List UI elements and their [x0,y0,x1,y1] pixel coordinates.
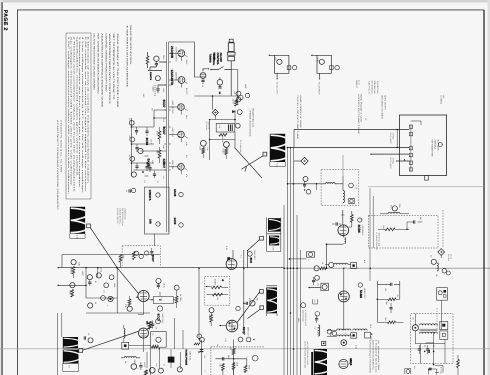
capacitor C14 coupling [194,337,204,351]
resistor R4 1M [208,308,214,326]
ratio det transformer [216,123,240,132]
capacitor texture mid column [142,155,188,184]
wire plate feed [168,42,200,77]
label video if strip [296,95,302,140]
capacitor C28 [151,319,160,330]
tube V6 pilot lamp [217,78,223,95]
wire vert column [244,250,248,330]
svg-text:PEAK SIGNAL AT THE PICTURE: PEAK SIGNAL AT THE PICTURE TUBE [116,34,119,109]
tube V3 6CD7 [178,104,185,111]
svg-text:DAMPER: DAMPER [175,72,178,81]
capacitor C3 line [233,84,250,102]
svg-text:1.5 MEG: 1.5 MEG [70,267,73,275]
svg-text:.02: .02 [94,281,97,284]
svg-text:© Howard W. Sams & Co., Inc.: © Howard W. Sams & Co., Inc. 1958 [59,120,62,173]
svg-text:1 DC voltage measurements tak: 1 DC voltage measurements taken with vac… [67,37,70,196]
wire left column [131,110,167,176]
label 21DQ6B [170,46,177,63]
svg-text:AC voltages measured with 1000: AC voltages measured with 1000 ohm per v… [70,37,73,188]
resistor R14 360K [244,365,250,373]
label sound if strip [357,94,367,135]
label to filament [389,133,405,169]
wire horiz section [129,318,183,375]
svg-text:5AM8: 5AM8 [359,290,363,298]
pot R25 220K [199,140,209,158]
value labels top column [142,55,188,179]
svg-text:255V: 255V [398,204,401,209]
potentiometer control 1 [268,54,297,94]
resistor R21 [156,147,161,163]
wire tube stubs [169,53,188,174]
svg-text:STRING: STRING [392,133,395,140]
svg-text:600V: 600V [185,60,188,65]
sound det module dashed box [321,170,359,206]
resistor R1 1 MEG [152,85,155,96]
svg-text:TUBE HTRS. IN: TUBE HTRS. IN [368,81,371,95]
note alternate parts [126,25,132,88]
svg-text:CONT: CONT [316,57,319,63]
svg-text:.1: .1 [245,356,248,358]
pot vert hold [96,273,114,288]
terminal box [122,342,129,349]
width coil L3 [247,218,283,252]
svg-text:B+ BOOST: B+ BOOST [317,327,320,338]
svg-text:680: 680 [227,355,230,358]
note top right small [368,81,387,120]
value labels bottom center [203,344,248,358]
capacitor C9 [87,275,92,286]
label 12AX4GTA [170,70,177,87]
svg-text:★ SEE PARTS LIST FOR ALTER: ★ SEE PARTS LIST FOR ALTERNATE [126,25,129,88]
wire hv lead [194,95,238,109]
svg-text:135V: 135V [162,88,165,93]
value labels vert sync [201,246,258,343]
svg-text:.047: .047 [419,217,422,221]
svg-text:3 Measured values are from so: 3 Measured values are from socket pin to… [78,37,81,190]
label TUNING CONTROL [203,54,215,72]
label crt ref [439,95,445,105]
svg-text:.25: .25 [203,355,206,358]
label UHF TUNER [431,140,444,158]
label 12BH7 [162,159,174,171]
wire det rail [209,114,236,160]
node test point diamond 1 [294,157,308,164]
svg-text:12BH7A: 12BH7A [148,190,152,202]
resistor R7 180K [119,255,125,268]
circle 26 on rail [314,262,327,271]
svg-text:21FDP4 PICTURE TUBE: 21FDP4 PICTURE TUBE [357,94,360,135]
svg-text:© Howard W. Sams & Co.: © Howard W. Sams & Co. [374,340,377,374]
svg-text:.047: .047 [233,91,236,95]
svg-text:HORIZ OUT: HORIZ OUT [363,288,366,299]
capacitor C6 [303,177,311,195]
svg-text:180K: 180K [122,255,125,260]
svg-text:.0033: .0033 [248,298,251,303]
coil L11 filter choke [380,206,409,214]
label 3CB6 [357,218,364,236]
svg-text:ON-OFF: ON-OFF [219,53,222,63]
power transformer dashed box [411,314,453,364]
svg-text:AGC LINE: AGC LINE [208,122,211,131]
svg-text:470K: 470K [156,131,159,136]
capacitor C5 [332,222,341,225]
svg-text:5K 280V: 5K 280V [179,294,182,302]
svg-text:10W: 10W [384,317,387,321]
svg-text:VHF TUNER PART: VHF TUNER PART [431,140,434,158]
capacitor C8 [244,301,255,306]
svg-text:STRING: STRING [392,158,395,165]
wire diagonal bend [116,267,138,294]
label speaker leads [355,80,361,89]
svg-text:24.5V: 24.5V [163,283,166,289]
notes box [66,33,91,199]
svg-text:1 MEG: 1 MEG [222,148,225,154]
svg-text:VERT OUT: VERT OUT [246,327,249,338]
svg-text:A PHOTOFACT STANDARD: A PHOTOFACT STANDARD [369,340,372,374]
transformer T4 [412,314,448,364]
tube V11 6CQ7 [219,290,263,332]
wire B+ distribution bus [284,130,300,375]
terminal strip [409,121,421,171]
svg-text:24.5: 24.5 [185,115,188,119]
svg-text:3.2 Ω: 3.2 Ω [358,80,361,85]
coil L7 [317,183,344,184]
svg-text:A PHOTOFACT STANDARD NOTATI: A PHOTOFACT STANDARD NOTATION SCHEMATIC [56,120,59,211]
svg-text:TO CONTRAST: TO CONTRAST [318,82,321,96]
svg-text:DET 5-6A: DET 5-6A [188,352,191,361]
tube V15 3CB6 [138,138,153,154]
svg-text:VALUE OR APPLICATION.: VALUE OR APPLICATION. [129,25,132,66]
wire h rails [57,267,490,313]
svg-text:CONNECTION: CONNECTION [124,208,127,220]
svg-text:1 MEG: 1 MEG [208,314,211,320]
svg-text:68: 68 [128,155,131,157]
resistor R9 10K dark [146,321,152,329]
coil L12 vertical [313,325,319,336]
svg-text:5 All controls set at normal;: 5 All controls set at normal; no signal … [84,37,87,194]
resistor R20 [156,127,161,144]
svg-text:Inc. Indianapolis 1958: Inc. Indianapolis 1958 [377,340,380,370]
svg-text:SYNC SEP: SYNC SEP [171,160,174,170]
svg-text:6CD7: 6CD7 [151,255,155,263]
svg-text:B+ BOOST SOURCE: B+ BOOST SOURCE [304,310,307,327]
svg-text:385V: 385V [297,318,300,323]
svg-text:5%: 5% [151,108,154,111]
svg-text:2.2: 2.2 [240,255,243,258]
svg-text:15,750 CPS HORIZ DEFLECTION: 15,750 CPS HORIZ DEFLECTION [304,341,307,369]
svg-text:150: 150 [128,135,131,138]
tube V9a [156,193,161,197]
tube V20 damper bottom [339,359,352,369]
svg-text:TUNING: TUNING [209,54,212,63]
label 3AU6 [173,189,183,197]
resistor R5 1.5MEG [70,260,77,278]
svg-text:380V SOURCE: 380V SOURCE [301,310,304,323]
svg-text:117V AC: 117V AC [440,367,443,375]
svg-text:OF V9: OF V9 [450,254,453,259]
wire dashed ground run [211,347,264,375]
interlock plug J1 [227,39,235,96]
tube V heater [349,183,358,190]
fuse cluster [405,366,443,375]
svg-text:PAGE 2: PAGE 2 [2,10,8,31]
resistor R23 [232,95,244,106]
svg-text:5-1C: 5-1C [276,163,279,168]
svg-text:5 MEG: 5 MEG [214,279,217,286]
resistor R11 [457,355,460,375]
svg-text:180V: 180V [370,336,373,341]
pot R26 [222,142,230,159]
tube V2 12AX4GTA [178,77,185,84]
label 5U8 [247,250,256,263]
svg-text:40: 40 [94,302,97,304]
svg-text:1 MEG: 1 MEG [152,86,155,93]
svg-text:TO PIN 1 OF PICTURE TUBE: TO PIN 1 OF PICTURE TUBE [296,95,299,140]
vert mult dashed box [205,276,230,305]
svg-text:7-1A: 7-1A [355,185,358,190]
bus tick caps [165,62,171,170]
b boost takeoff box [289,252,315,261]
svg-text:SET TO PRODUCE 10 VOLTS P: SET TO PRODUCE 10 VOLTS PEAK TO [112,34,115,100]
svg-text:21 SERIES: 21 SERIES [439,95,442,105]
svg-text:3AU6: 3AU6 [173,189,177,197]
svg-text:SER. STRING (A1): SER. STRING (A1) [370,81,373,94]
label 180v [370,333,373,341]
svg-text:TO TUNER AGC: TO TUNER AGC [239,140,242,153]
svg-text:ADJUSTED ON CONTROLS INDICA: ADJUSTED ON CONTROLS INDICATE GUIDE [100,34,103,109]
page number PAGE 2 [2,10,8,31]
note measurement conditions [93,34,119,109]
svg-text:VERT OSC: VERT OSC [161,314,164,324]
resistor R12 10K [218,364,224,375]
coil L8 [343,155,345,203]
capacitor C7 [126,188,136,192]
wire grid branch [148,62,167,88]
note agc [116,208,126,226]
svg-text:12AV7A: 12AV7A [149,72,152,81]
diode M1 [232,110,242,115]
svg-text:SEE NOTE 4 (A2): SEE NOTE 4 (A2) [378,233,381,247]
tube V1 21DQ6B [178,50,185,57]
resistor R10 300 ohm [229,340,235,375]
svg-text:VERT OSC: VERT OSC [171,128,174,138]
svg-text:10K 5%: 10K 5% [221,137,224,143]
label 6CD7 [162,100,174,115]
resistor R3 [349,211,354,227]
svg-text:LINE: LINE [244,84,247,89]
tube V7 6CB6 tuner osc [200,73,206,88]
terminal sq [349,198,354,203]
svg-text:SPEAKER FIELD COIL: SPEAKER FIELD COIL [251,108,254,127]
coil L5 flyback top [325,260,366,269]
svg-text:12AX4GTA: 12AX4GTA [170,70,174,87]
svg-text:SPKR VC: SPKR VC [355,80,358,89]
resistor R24 [219,133,227,143]
capacitor C1 [154,56,159,67]
label horiz drive [143,362,158,367]
label horiz phase det [185,350,192,366]
svg-text:(TOP VIEW): (TOP VIEW) [436,140,439,151]
coil L9 sound [124,325,125,342]
ground marks [203,370,206,374]
note bottom right corner [369,340,381,374]
svg-text:24.0: 24.0 [142,94,145,98]
svg-text:WAVEFORMS TAKEN WITH CONTRO: WAVEFORMS TAKEN WITH CONTROLS [108,34,111,105]
svg-text:2ND VIDEO IF AMP: 2ND VIDEO IF AMP [299,95,302,130]
svg-text:HOLD: HOLD [100,267,103,273]
svg-text:100: 100 [384,288,387,291]
resistor R8 [127,296,132,311]
label 6CQ7 [236,306,250,337]
b+ adjust dashed box [369,216,439,251]
svg-text:2W: 2W [396,295,399,298]
capacitor C24 [145,163,148,171]
svg-text:20: 20 [87,333,90,335]
capacitor C15 C16 [418,345,430,354]
svg-text:AB 4.7: AB 4.7 [232,99,235,104]
capacitor C23 [145,127,148,136]
rc filter chain [377,281,404,324]
svg-text:SYNC DET: SYNC DET [253,250,256,261]
svg-text:NOT SHOWN ON SCHEMATIC MEA: NOT SHOWN ON SCHEMATIC MEASURED [97,34,100,95]
svg-text:1W: 1W [216,297,219,300]
svg-text:CONTROL: CONTROL [216,53,219,66]
svg-text:1W: 1W [317,283,320,286]
svg-text:CONTROL: CONTROL [212,54,215,66]
svg-text:HORIZ. OUTPUT: HORIZ. OUTPUT [383,95,386,111]
bracket 5-7C [313,299,318,304]
capacitor C22 [128,155,138,171]
svg-text:300: 300 [229,347,232,350]
wire right verticals [370,188,373,281]
svg-text:SEE PAGE (A5): SEE PAGE (A5) [373,81,376,94]
svg-text:VOL: VOL [274,57,277,61]
resistor R6 680K [68,283,75,297]
label 12BH7A [148,190,152,202]
capacitor C20 [128,118,138,136]
svg-text:5U8: 5U8 [249,258,253,264]
svg-text:10 Ω: 10 Ω [369,324,372,329]
svg-text:← SPEAKER CHASSIS GROUND: ← SPEAKER CHASSIS GROUND [248,108,251,137]
svg-text:.01: .01 [162,176,165,179]
svg-text:6CD7: 6CD7 [162,100,166,108]
tube V17 horiz output 5AM8 [338,268,366,331]
svg-text:680K: 680K [68,290,71,295]
capacitor C4 [84,333,93,343]
svg-text:specifications; measured value: specifications; measured values given wh… [75,37,78,178]
tube V9b [156,222,161,226]
wire cathode rail [215,359,246,366]
label tuner agc [205,122,242,154]
svg-text:1X2B: 1X2B [349,358,352,363]
svg-text:2 Resistor and condenser valu: 2 Resistor and condenser values are from… [73,37,76,192]
wire sound takeoff [288,183,317,190]
svg-text:250V: 250V [162,55,165,60]
svg-text:4 Line voltage maintained at: 4 Line voltage maintained at 117 volts f… [81,37,84,195]
label 6CQ7 vert [157,306,164,324]
tube V14 6CM7 [139,328,149,338]
value labels right side [382,204,438,348]
svg-text:5-8: 5-8 [68,365,71,368]
svg-text:5-7: 5-7 [344,333,347,336]
node boost diamond [212,109,218,119]
svg-text:100K: 100K [113,283,116,288]
svg-text:HIGH VOLTAGE 18KV PULSE: HIGH VOLTAGE 18KV PULSE [306,341,309,366]
capacitor C2 [156,89,159,93]
potentiometer control 2 [311,54,340,95]
svg-text:ANTENNA: ANTENNA [434,140,437,150]
capacitor C15b [222,357,224,360]
junction dots rails [198,183,371,353]
svg-text:A2: A2 [430,255,433,257]
svg-text:HORIZ OUTPUT: HORIZ OUTPUT [175,48,178,63]
svg-text:# SOUND IF: # SOUND IF [361,225,364,237]
tuner module A1 [400,115,447,180]
label KNOB CONTROL [212,53,222,66]
svg-text:6CQ7: 6CQ7 [242,327,246,335]
tube V13 [136,290,149,301]
svg-text:CONTROL VIEWED FROM SHAFT: CONTROL VIEWED FROM SHAFT END [104,34,107,93]
capacitor C11 [156,278,166,289]
circled R [252,355,258,361]
tube V5 12BH7 [178,164,185,171]
focus coil L4 [248,286,280,319]
horiz osc transformer box [151,332,167,350]
terminal hv [322,341,326,345]
tube V8 3CB6 video IF [338,210,349,236]
svg-text:TO VOL CONT: TO VOL CONT [275,82,278,95]
svg-text:40: 40 [432,345,435,347]
node test point diamond 2 [438,249,445,258]
label 12C5 [173,218,183,228]
value labels bottom left [78,262,127,309]
svg-text:6 Direction of arrow at contr: 6 Direction of arrow at controls indicat… [87,37,90,186]
wire vert osc [138,292,177,315]
svg-text:6.3Ω: 6.3Ω [354,345,357,350]
screen cluster [308,275,328,290]
agc dashed box [122,234,160,266]
damper cluster [431,210,452,275]
svg-text:3CB6: 3CB6 [145,138,149,146]
svg-text:VERT OUTPUT: VERT OUTPUT [171,101,174,115]
tube heater pilot [149,72,160,81]
deflection yoke L2 vertical [70,207,117,268]
circles bottom audio [145,364,183,375]
circled 12 [301,303,320,316]
wire vert out stage [197,268,202,375]
svg-text:1ST IF: 1ST IF [149,139,152,144]
svg-text:←: ← [201,281,203,283]
svg-text:DC AND RESISTANCE VALUES SHOWN: DC AND RESISTANCE VALUES SHOWN [93,34,96,91]
capacitor C21 [128,135,138,152]
svg-text:5-1D: 5-1D [75,235,78,240]
svg-text:1.2: 1.2 [143,180,146,183]
svg-text:12C5: 12C5 [173,218,177,225]
svg-text:VERT: VERT [81,271,84,277]
tube V19 1X2B [341,340,347,346]
label 6CD7 [162,127,174,138]
label hv section [304,341,310,369]
tube top circle [238,337,254,342]
svg-text:(A4): (A4) [442,95,445,99]
svg-text:26: 26 [321,262,324,264]
wire pointer diag [235,148,263,179]
tube V16 5AM8 [131,159,154,178]
output transformer T2 [63,332,138,372]
svg-text:BOOST: BOOST [185,88,188,95]
deflection yoke L1 horizontal [247,134,289,168]
svg-text:33: 33 [163,364,166,366]
